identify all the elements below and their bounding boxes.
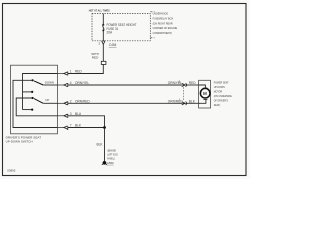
svg-text:(BEHIND: (BEHIND — [107, 148, 116, 152]
power seat up-down motor box — [199, 80, 211, 108]
svg-text:PANEL): PANEL) — [107, 157, 115, 161]
svg-text:2: 2 — [70, 99, 72, 103]
svg-text:(ON UNDERSIDE: (ON UNDERSIDE — [214, 94, 232, 98]
connector dashed link — [182, 87, 184, 101]
switch internal: B+ bus from pin 1 — [23, 74, 58, 110]
svg-text:BLK: BLK — [97, 143, 104, 147]
svg-text:03865: 03865 — [7, 169, 15, 173]
pin 7 (BLK) — [57, 124, 72, 130]
connector pin C454 (below fuse box) — [102, 40, 106, 42]
in-line connector — [101, 61, 106, 64]
wire BLK (connector to motor) — [186, 102, 200, 104]
svg-text:BLK: BLK — [189, 99, 196, 103]
driver's power seat up-down switch box — [11, 65, 58, 134]
DOWN switch blade — [34, 81, 43, 85]
svg-text:UNDERHOOD: UNDERHOOD — [153, 12, 169, 16]
pin 4 (ORN/YEL) — [57, 81, 72, 87]
svg-text:COMPARTMENT): COMPARTMENT) — [153, 31, 173, 35]
ground bus 2 (to pin 3) — [16, 98, 57, 116]
svg-text:LEFT KICK: LEFT KICK — [107, 152, 118, 156]
svg-text:ORN/RED: ORN/RED — [75, 99, 90, 103]
underhood fuse/relay box (dashed) — [92, 14, 150, 41]
wire BLK (junction to ground) — [104, 128, 106, 162]
svg-text:UP-DOWN: UP-DOWN — [214, 85, 225, 89]
wire to motor + terminal (bottom) — [199, 99, 206, 103]
svg-text:OF DRIVER'S: OF DRIVER'S — [214, 99, 228, 103]
fuse F31 — [102, 24, 104, 26]
pin 1 (RED) — [57, 70, 72, 76]
in-line connector pin (lower, ORN/RED to BLK) — [179, 98, 187, 106]
svg-text:ORN/YEL: ORN/YEL — [75, 81, 89, 85]
svg-text:C454: C454 — [109, 43, 117, 47]
tick to DOWN lower contact — [23, 91, 32, 93]
svg-text:M: M — [203, 91, 207, 96]
in-line connector pin (upper, ORN/YEL to RED) — [179, 79, 187, 87]
wire WHT/RED — [102, 44, 104, 61]
UP switch blade — [34, 99, 43, 104]
wire BLK (to ground junction) — [68, 127, 105, 129]
svg-text:20A: 20A — [107, 31, 114, 35]
svg-text:ORN/YEL: ORN/YEL — [168, 81, 182, 85]
motor M1 — [200, 88, 210, 98]
svg-text:1: 1 — [98, 41, 100, 45]
junction — [103, 126, 106, 129]
svg-text:RED: RED — [92, 55, 99, 59]
svg-text:HOT AT ALL TIMES: HOT AT ALL TIMES — [89, 8, 110, 12]
svg-text:BLK: BLK — [75, 124, 82, 128]
bracket tick top — [150, 11, 154, 13]
ground bus 1 (to pin 7) — [13, 80, 57, 127]
wire (battery feed into fuse) — [102, 14, 104, 25]
ground G550 — [103, 161, 107, 165]
svg-text:POWER SEAT: POWER SEAT — [214, 81, 229, 85]
svg-text:3: 3 — [70, 112, 72, 116]
svg-text:G550: G550 — [107, 161, 114, 165]
tick to UP lower contact — [23, 109, 32, 111]
svg-text:SEAT): SEAT) — [214, 103, 221, 107]
svg-text:ORN/RED: ORN/RED — [168, 99, 183, 103]
svg-text:UP-DOWN SWITCH: UP-DOWN SWITCH — [6, 139, 33, 143]
bracket tick bottom — [150, 37, 154, 39]
wire ORN/YEL (switch to connector) — [68, 84, 182, 86]
wire (fuse to connector pin) — [102, 30, 104, 40]
wire BLU (to ground junction) — [68, 116, 105, 128]
svg-text:CORNER OF ENGINE: CORNER OF ENGINE — [153, 26, 178, 30]
svg-text:RED: RED — [189, 81, 196, 85]
svg-text:DOWN: DOWN — [45, 81, 54, 85]
wire to motor + terminal (top) — [199, 85, 206, 88]
wire RED (connector to motor) — [186, 84, 200, 86]
pin 3 (BLU) — [57, 112, 72, 118]
wire RED (connector down, over to switch pin 1) — [68, 64, 104, 73]
svg-text:MOTOR: MOTOR — [214, 90, 222, 94]
svg-text:1: 1 — [70, 70, 72, 74]
svg-text:FUSE/RELAY BOX: FUSE/RELAY BOX — [153, 17, 174, 21]
svg-text:4: 4 — [70, 81, 72, 85]
svg-text:BLU: BLU — [75, 112, 82, 116]
svg-text:7: 7 — [70, 124, 72, 128]
svg-text:UP: UP — [45, 98, 49, 102]
svg-text:(ON RIGHT REAR: (ON RIGHT REAR — [153, 21, 173, 25]
svg-text:RED: RED — [75, 70, 82, 74]
wire ORN/RED (switch to connector) — [68, 102, 182, 104]
pin 2 (ORN/RED) — [57, 99, 72, 105]
